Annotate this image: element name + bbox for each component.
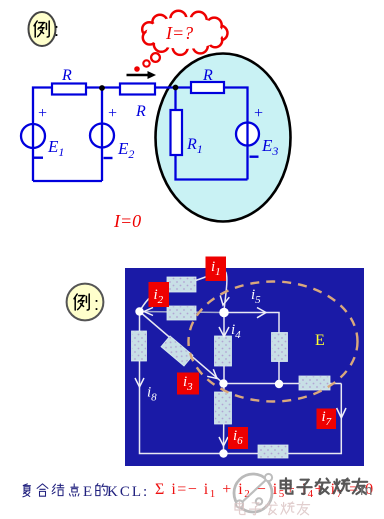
svg-text:+: + bbox=[37, 105, 48, 122]
svg-text:I=?: I=? bbox=[165, 23, 193, 43]
svg-text:R: R bbox=[202, 67, 213, 84]
svg-text:I=0: I=0 bbox=[113, 211, 141, 231]
svg-text:m: m bbox=[360, 482, 373, 499]
svg-text:E1: E1 bbox=[47, 137, 64, 159]
svg-text:R: R bbox=[61, 67, 72, 84]
svg-text:E: E bbox=[315, 332, 325, 349]
svg-text:E: E bbox=[83, 484, 92, 500]
svg-text:E2: E2 bbox=[117, 139, 134, 161]
svg-text::: : bbox=[54, 20, 59, 40]
svg-text::: : bbox=[94, 294, 99, 314]
svg-text:R: R bbox=[135, 103, 146, 120]
svg-text:KCL:: KCL: bbox=[107, 484, 149, 500]
svg-text:+: + bbox=[253, 105, 264, 122]
svg-text:+: + bbox=[107, 105, 118, 122]
